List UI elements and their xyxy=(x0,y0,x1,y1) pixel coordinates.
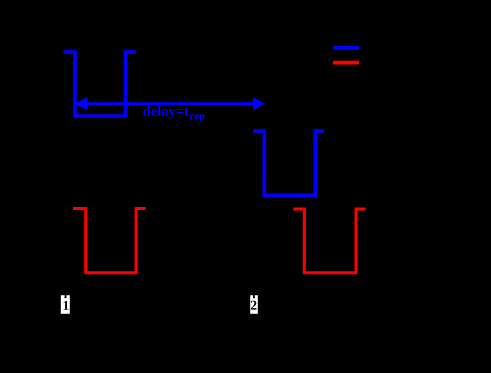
tick mark over box 2 xyxy=(253,295,255,298)
red pulse 1 xyxy=(73,209,146,273)
tick label box 1 xyxy=(61,295,70,314)
delay arrow left head xyxy=(75,97,87,111)
blue pulse 1 xyxy=(64,52,137,116)
tick label box 2 xyxy=(250,295,258,314)
label delay=t xyxy=(143,106,188,119)
tick mark over box 1 xyxy=(65,295,67,298)
tick digit 2 xyxy=(251,301,257,310)
legend red line xyxy=(333,61,359,65)
red pulse 2 xyxy=(293,209,366,273)
delay arrow shaft xyxy=(85,102,255,105)
legend blue line xyxy=(333,46,359,50)
tick digit 1 xyxy=(64,301,69,310)
blue pulse 2 xyxy=(253,131,324,195)
label subscript rep xyxy=(190,114,205,121)
delay arrow right head xyxy=(253,97,265,111)
